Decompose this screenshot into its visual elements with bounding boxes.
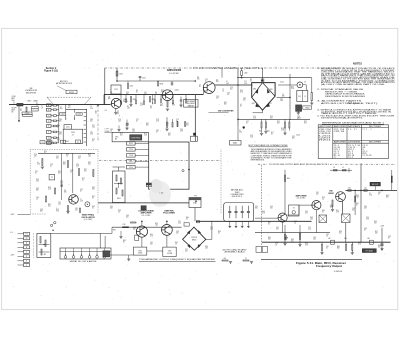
svg-text:4.7: 4.7: [72, 134, 74, 136]
svg-text:100: 100: [339, 233, 342, 235]
svg-text:R31: R31: [113, 230, 116, 232]
sub wire drop 1: [65, 105, 67, 113]
svg-text:4.7K: 4.7K: [172, 105, 175, 107]
svg-text:4.7K: 4.7K: [180, 131, 183, 133]
svg-text:J5: J5: [304, 81, 306, 83]
svg-text:K201: K201: [117, 198, 121, 200]
relay contact label column: [127, 142, 149, 169]
svg-text:4.7K: 4.7K: [253, 118, 256, 120]
svg-text:1K: 1K: [123, 242, 125, 244]
terminal strip box: [60, 248, 111, 259]
wire to ground stub: [18, 106, 20, 120]
amplifier label right: [295, 194, 307, 199]
svg-text:4.7K: 4.7K: [56, 211, 59, 213]
svg-text:0.5–1.5 MC: 0.5–1.5 MC: [142, 215, 152, 217]
svg-text:100: 100: [48, 206, 51, 208]
svg-text:680: 680: [146, 125, 149, 127]
output blob 1: [348, 190, 351, 192]
svg-text:2.2K: 2.2K: [37, 164, 40, 166]
lpf entry wires: [215, 220, 224, 222]
supply drop wire: [116, 68, 118, 81]
transistor Q306: [336, 192, 346, 202]
strip feed verticals: [99, 233, 101, 248]
ring mixer CR bridge: [252, 83, 275, 111]
transformer ground: [297, 111, 299, 112]
svg-text:100: 100: [78, 158, 81, 160]
svg-text:10K: 10K: [277, 123, 280, 125]
svg-text:Y1: Y1: [304, 96, 306, 98]
svg-text:470: 470: [270, 118, 273, 120]
filter load wire: [311, 78, 313, 93]
svg-text:680: 680: [224, 104, 227, 106]
labels above bfo module: [40, 140, 81, 144]
svg-text:10K: 10K: [204, 92, 207, 94]
caption rule: [261, 258, 362, 260]
svg-text:100: 100: [84, 171, 87, 173]
svg-text:470: 470: [224, 258, 227, 260]
a3a2 extra marks: [39, 244, 50, 246]
q303 stub: [166, 221, 168, 224]
svg-text:10K: 10K: [268, 239, 271, 241]
rail junction dot: [116, 80, 118, 82]
transistor Q303: [162, 225, 173, 236]
svg-text:L61: L61: [364, 187, 367, 189]
svg-text:Q1, 3: Q1, 3: [334, 153, 339, 155]
svg-text:C63: C63: [344, 238, 347, 240]
svg-text:680: 680: [108, 98, 111, 100]
main bottom rail: [262, 241, 391, 243]
output callout dark box: [362, 249, 376, 253]
svg-text:.005: .005: [313, 239, 316, 241]
svg-text:.01: .01: [66, 156, 68, 158]
decoupling pair: [166, 117, 168, 122]
svg-text:Y2: Y2: [51, 177, 53, 179]
svg-text:.01: .01: [275, 245, 277, 247]
decoupling pair 2: [177, 121, 179, 127]
svg-text:100: 100: [230, 88, 233, 90]
svg-text:100: 100: [291, 241, 294, 243]
lpf capacitors: [228, 206, 250, 218]
bias resistor R205 gnd: [130, 102, 132, 104]
svg-text:Frequency Output: Frequency Output: [316, 265, 342, 268]
left lower wires: [23, 213, 31, 215]
label box TP202: [32, 109, 39, 111]
svg-text:680: 680: [330, 207, 333, 209]
svg-text:10K: 10K: [150, 244, 153, 246]
svg-text:470: 470: [378, 247, 381, 249]
mixer output wire: [215, 84, 252, 86]
bfo module bottom wires: [51, 232, 112, 234]
svg-text:.01: .01: [70, 172, 72, 174]
svg-text:10K: 10K: [364, 208, 367, 210]
svg-text:.01: .01: [36, 199, 38, 201]
note 1 paragraph: [317, 67, 396, 86]
svg-text:(AFTER SER NO 847): (AFTER SER NO 847): [56, 82, 72, 85]
input transformer T201: [111, 85, 121, 94]
svg-text:.01: .01: [57, 141, 59, 143]
output module banner line: [258, 163, 267, 165]
table cell text: [319, 125, 382, 159]
svg-text:C205: C205: [71, 132, 75, 134]
module boundary banner line: [105, 67, 193, 69]
svg-text:470: 470: [352, 210, 355, 212]
svg-text:C207: C207: [142, 78, 146, 80]
svg-text:2.2K: 2.2K: [305, 245, 308, 247]
output junction dots: [354, 190, 356, 192]
bridge top feed: [261, 68, 263, 81]
connector P201 pin column: [46, 104, 58, 145]
svg-text:CR6: CR6: [252, 103, 255, 105]
svg-text:R201: R201: [319, 140, 331, 142]
rail inductor blob 1: [331, 240, 335, 244]
rail inductor blob 2: [370, 240, 374, 244]
rail junction dot 2: [195, 80, 197, 82]
main signal wire: [104, 94, 203, 96]
svg-text:C223: C223: [296, 135, 300, 137]
svg-text:10K: 10K: [186, 125, 189, 127]
coupling cap C209: [180, 97, 182, 101]
svg-text:R1, 14: R1, 14: [334, 155, 340, 157]
rail drop C231: [171, 81, 173, 83]
svg-text:FL201: FL201: [69, 92, 74, 94]
svg-text:CR4: CR4: [253, 88, 256, 90]
svg-text:680: 680: [160, 105, 163, 107]
svg-text:470: 470: [374, 223, 377, 225]
bfo vertical 2: [72, 153, 74, 193]
svg-text:R9: R9: [49, 142, 51, 144]
transistor Q304: [278, 213, 287, 222]
svg-text:C204: C204: [77, 114, 81, 116]
filter load ground: [311, 100, 313, 102]
svg-text:33: 33: [240, 106, 242, 108]
output label dark box: [370, 182, 380, 186]
svg-text:T201: T201: [114, 89, 118, 91]
svg-text:.01: .01: [322, 199, 324, 201]
svg-text:2.2K: 2.2K: [244, 83, 247, 85]
svg-text:L62: L62: [328, 238, 331, 240]
bfo module dotted bottom: [30, 213, 46, 215]
rail resistor R204: [158, 81, 159, 86]
lower mid ground 2: [120, 231, 122, 236]
svg-text:33: 33: [95, 113, 97, 115]
svg-text:REFERENCES.: REFERENCES.: [251, 160, 266, 162]
svg-text:OUTPUT: OUTPUT: [191, 237, 197, 239]
svg-text:100: 100: [243, 100, 246, 102]
svg-text:P/O 2ND CONVERTER ASSEMBLY A4: P/O 2ND CONVERTER ASSEMBLY A4 (SEE NOTE …: [193, 67, 263, 70]
svg-text:470: 470: [64, 192, 67, 194]
svg-text:R210: R210: [129, 143, 133, 145]
svg-text:.01: .01: [326, 236, 328, 238]
svg-text:C201, C204: C201, C204: [319, 129, 331, 131]
svg-text:470: 470: [126, 93, 129, 95]
svg-text:C3: C3: [42, 142, 44, 144]
sub wire: [65, 108, 87, 110]
svg-text:C1, 5, 7, 10: C1, 5, 7, 10: [348, 145, 360, 147]
supply vertical right: [381, 228, 383, 250]
module boundary banner line right: [264, 67, 344, 69]
module boundary dash-dot: [99, 160, 221, 162]
svg-text:L1: L1: [362, 149, 364, 151]
mid verticals bottom 2: [299, 225, 301, 244]
svg-text:Q201: Q201: [319, 137, 331, 139]
svg-text:2.2K: 2.2K: [210, 229, 213, 231]
bfo out connector: [85, 202, 90, 207]
bias resistor R206: [150, 97, 151, 103]
svg-text:FOLLOWER: FOLLOWER: [163, 213, 175, 215]
input terminal label: [12, 96, 17, 102]
svg-text:5-13/5-14: 5-13/5-14: [334, 271, 343, 273]
svg-text:CR5: CR5: [270, 89, 273, 91]
signal wire lower: [112, 226, 182, 228]
svg-text:470: 470: [75, 210, 78, 212]
label part of conv: [105, 129, 114, 133]
svg-text:.01: .01: [227, 94, 229, 96]
arrow from wire: [152, 95, 154, 103]
svg-text:10K: 10K: [276, 229, 279, 231]
svg-text:2.2K: 2.2K: [250, 137, 253, 139]
lpf label: [231, 189, 245, 199]
svg-text:R1, 18: R1, 18: [348, 155, 354, 157]
q306 collector wire: [342, 201, 344, 214]
output transformer dark box: [296, 105, 302, 112]
wire to mixer: [202, 87, 204, 95]
svg-text:4.7K: 4.7K: [150, 236, 153, 238]
svg-text:C2, C4: C2, C4: [334, 129, 345, 131]
cap label box C204: [76, 113, 82, 116]
svg-text:680: 680: [133, 229, 136, 231]
coil box L201: [64, 125, 72, 130]
svg-text:.01: .01: [294, 223, 296, 225]
rail drop r1: [321, 242, 323, 244]
svg-text:B: B: [26, 247, 27, 249]
svg-text:1K: 1K: [57, 127, 59, 129]
boundary node circle: [97, 104, 99, 106]
filter extent dash line: [47, 96, 91, 98]
svg-text:1K: 1K: [199, 86, 201, 88]
svg-text:2.2K: 2.2K: [80, 201, 83, 203]
if junction dot: [237, 119, 239, 121]
svg-text:1K: 1K: [80, 191, 82, 193]
mid column wire: [118, 167, 120, 171]
svg-text:CR2, R4: CR2, R4: [334, 131, 345, 133]
svg-text:Section V: Section V: [46, 67, 57, 70]
converter drop vertical: [237, 68, 239, 126]
svg-text:1K: 1K: [176, 121, 178, 123]
svg-text:.005: .005: [88, 156, 91, 158]
svg-text:.005: .005: [226, 83, 229, 85]
svg-text:LINE FREQ: LINE FREQ: [131, 137, 141, 139]
svg-text:100: 100: [305, 213, 308, 215]
svg-text:.005: .005: [36, 181, 39, 183]
svg-text:L4: L4: [62, 142, 64, 144]
filter FL201 callout box: [66, 90, 77, 93]
bottom res 75: [243, 260, 249, 261]
svg-text:4.7K: 4.7K: [336, 212, 339, 214]
svg-text:4.7K: 4.7K: [366, 219, 369, 221]
svg-text:AND DIPLEXER: AND DIPLEXER: [26, 91, 37, 94]
svg-text:.01: .01: [155, 93, 157, 95]
svg-text:1K: 1K: [136, 91, 138, 93]
bridge bottom wire: [262, 110, 264, 113]
upper rail: [237, 77, 312, 79]
svg-text:33: 33: [218, 233, 220, 235]
osc output circles: [50, 224, 52, 226]
svg-text:A3A1: A3A1: [34, 99, 38, 102]
tapped coil rail: [85, 109, 87, 146]
svg-text:100: 100: [90, 121, 93, 123]
bfo module dotted left: [29, 150, 31, 214]
svg-text:680: 680: [386, 197, 389, 199]
xtal osc box: [189, 198, 201, 208]
svg-text:2.5–4.0 MC: 2.5–4.0 MC: [297, 198, 307, 200]
wire link: [103, 95, 105, 105]
note 4 paragraph: [317, 108, 393, 115]
output drop 1: [354, 190, 356, 215]
table grid: [318, 125, 388, 159]
amp module vertical: [284, 170, 286, 214]
transistor Q305: [312, 201, 321, 210]
svg-text:1K: 1K: [356, 205, 358, 207]
descend wire: [237, 126, 239, 141]
filter extent left leader: [47, 97, 54, 104]
svg-text:33: 33: [250, 81, 252, 83]
svg-text:33: 33: [92, 198, 94, 200]
svg-text:NOTES: NOTES: [353, 62, 362, 66]
label box TP201: [32, 107, 39, 109]
svg-text:L201: L201: [66, 127, 70, 129]
lower signal wire 2: [110, 254, 133, 256]
svg-text:C203: C203: [61, 114, 65, 116]
svg-text:C8, R1: C8, R1: [348, 129, 357, 131]
svg-text:10K: 10K: [36, 105, 39, 107]
divider pair 2 stubs: [284, 119, 286, 122]
emitter follower label: [163, 210, 175, 214]
svg-text:.01: .01: [41, 107, 43, 109]
svg-text:100: 100: [126, 217, 129, 219]
q305 emitter: [315, 210, 317, 233]
output module banner line right: [330, 163, 396, 165]
svg-text:RANGE: RANGE: [188, 104, 195, 107]
svg-text:C14, 19: C14, 19: [348, 147, 355, 149]
long vertical a5: [360, 163, 362, 242]
svg-text:2.2K: 2.2K: [60, 183, 63, 185]
svg-text:C205, C20: C205, C20: [319, 131, 331, 133]
svg-text:680: 680: [337, 248, 340, 250]
svg-text:1K: 1K: [35, 173, 37, 175]
svg-text:L203: L203: [119, 74, 123, 76]
amplifier chain bias drops: [120, 95, 186, 105]
svg-text:33: 33: [92, 141, 94, 143]
svg-text:2.2K: 2.2K: [291, 88, 294, 90]
left dark box pair: [146, 183, 151, 185]
svg-text:2.2K: 2.2K: [90, 108, 93, 110]
collector rail: [117, 80, 195, 82]
bridge right junction: [289, 97, 291, 99]
svg-text:(SEE TEXT): (SEE TEXT): [354, 103, 379, 105]
svg-text:(A) ONLY ONE BOARD AND PART OF: (A) ONLY ONE BOARD AND PART OF USE.: [321, 83, 386, 86]
svg-text:470: 470: [88, 164, 91, 166]
svg-text:1K: 1K: [205, 81, 207, 83]
output wire top: [345, 189, 397, 191]
svg-text:33: 33: [50, 166, 52, 168]
divider resistor pair 1: [261, 122, 262, 128]
banner drop wire: [104, 68, 106, 105]
connector P301 pin column: [18, 232, 30, 266]
diamond right wire: [206, 238, 212, 240]
svg-text:10K: 10K: [375, 233, 378, 235]
svg-text:F: F: [26, 265, 27, 267]
svg-text:470: 470: [59, 121, 62, 123]
q302 down wire: [141, 237, 143, 247]
xtal filter box: [297, 90, 308, 101]
svg-text:C1, 4: C1, 4: [334, 145, 339, 147]
scan speckle texture: [6, 32, 394, 307]
label box C201: [22, 112, 32, 114]
svg-text:C1001: C1001: [25, 113, 30, 115]
svg-text:DETENTS/NORMAL ATTEMPTS.: DETENTS/NORMAL ATTEMPTS.: [321, 116, 364, 119]
svg-text:.005: .005: [68, 107, 71, 109]
supply cap right: [380, 243, 383, 245]
svg-text:L202: L202: [65, 141, 69, 143]
svg-text:C9: C9: [333, 167, 335, 169]
svg-text:75: 75: [245, 258, 247, 260]
bfo cap box: [49, 174, 55, 180]
svg-text:C220: C220: [129, 167, 133, 169]
node circle: [182, 170, 184, 172]
interstage vertical: [194, 95, 196, 141]
transistor Q202: [162, 90, 173, 101]
svg-text:10K: 10K: [216, 81, 219, 83]
svg-text:100: 100: [161, 91, 164, 93]
bridge feed component: [261, 79, 264, 81]
svg-text:10K: 10K: [92, 189, 95, 191]
svg-text:100: 100: [304, 123, 307, 125]
relay contact boxes: [256, 247, 262, 253]
svg-text:Figure 5-1(1): Figure 5-1(1): [44, 71, 58, 73]
svg-text:10K: 10K: [59, 134, 62, 136]
svg-text:4.7K: 4.7K: [358, 244, 361, 246]
svg-text:2.2K: 2.2K: [126, 125, 129, 127]
osc injection vertical: [221, 68, 223, 78]
svg-text:L.O. →: L.O. →: [10, 232, 15, 234]
xbox 1: [319, 215, 327, 223]
svg-text:R204: R204: [160, 83, 164, 85]
svg-text:.01: .01: [297, 118, 299, 120]
q306 base res: [332, 200, 333, 207]
connector J201: [17, 103, 23, 106]
arrow down 2: [74, 115, 76, 119]
xtal osc drop: [194, 208, 196, 222]
svg-text:TP202: TP202: [305, 107, 310, 109]
assembly note text: [251, 148, 293, 162]
RCDR label: [12, 108, 18, 114]
rail cap C207: [139, 78, 141, 81]
amp module blob: [285, 175, 286, 182]
bridge right wire: [277, 96, 290, 98]
beat freq oscillator label: [81, 214, 95, 222]
svg-text:B: B: [48, 109, 49, 111]
terminal strip pins: [64, 248, 105, 258]
receiver frequency range box: [184, 100, 199, 108]
svg-text:C2: C2: [105, 110, 107, 112]
lower collector rail: [196, 220, 312, 222]
lpf ground drops: [228, 222, 249, 228]
svg-text:33: 33: [322, 212, 324, 214]
svg-text:10K: 10K: [56, 158, 59, 160]
junction dot: [18, 120, 20, 122]
rail drop r2: [345, 242, 347, 244]
upper rail inductor: [241, 71, 243, 76]
